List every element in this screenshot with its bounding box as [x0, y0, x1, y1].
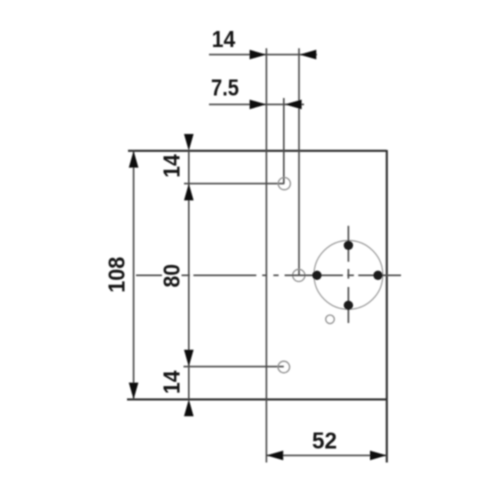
arrow 14-left-top outside (above plate top edge, pointing down): [184, 134, 194, 151]
arrow 14-left-bottom outside (below plate bottom edge, pointing up): [184, 399, 194, 416]
top hole circle: [278, 178, 290, 190]
svg-text:7.5: 7.5: [211, 74, 239, 100]
horizontal centerline of middle row (dash-dot): [136, 274, 401, 276]
arrow 14 top left: [250, 50, 267, 60]
arrow 7.5 right: [285, 100, 302, 110]
reference line at left hole column (x=266): [265, 48, 267, 462]
extension line top hole row (y=183.6): [184, 183, 284, 185]
dimension line 14 (top): [209, 54, 317, 56]
svg-text:14: 14: [212, 26, 236, 52]
plate bottom edge: [127, 398, 387, 400]
arrow 108 bottom: [129, 383, 139, 400]
dot left on bolt circle: [312, 271, 321, 280]
arrow 80 bottom (pointing down at lower hole row): [184, 350, 194, 367]
extension line x=283.8 down to top hole: [283, 98, 285, 184]
svg-text:14: 14: [159, 370, 185, 394]
arrow 80 top (pointing up at hole row): [184, 184, 194, 201]
small auxiliary hole: [326, 315, 335, 324]
dimension line 14/80/14 (x=188.8): [188, 151, 190, 400]
svg-text:80: 80: [159, 264, 185, 288]
dot bottom on bolt circle: [344, 301, 353, 310]
dot right on bolt circle: [373, 271, 382, 280]
arrow 7.5 left: [250, 100, 267, 110]
arrow 108 top: [129, 151, 139, 168]
vertical centerline of big circle (dash-dot): [347, 226, 349, 323]
svg-text:14: 14: [159, 154, 185, 178]
plate right edge (with extension down to 52 dim): [386, 150, 388, 463]
extension line bottom hole row (y=366.6): [184, 366, 284, 368]
dimension line 7.5: [209, 103, 304, 105]
plate top edge: [128, 150, 387, 152]
dimension line 108 (x=133.6): [133, 151, 135, 400]
arrow 52 right (pointing right): [370, 451, 387, 461]
extension line x=299 down to middle hole: [298, 48, 300, 275]
dot top on bolt circle: [344, 241, 353, 250]
arrow 14 top right: [300, 50, 317, 60]
svg-text:52: 52: [312, 427, 337, 453]
bottom hole circle: [278, 361, 290, 373]
middle hole circle: [293, 269, 305, 281]
big circle (d30 hole): [314, 241, 383, 310]
dimension line 52: [266, 454, 386, 456]
arrow 52 left (pointing left): [266, 451, 283, 461]
svg-text:108: 108: [104, 257, 130, 293]
